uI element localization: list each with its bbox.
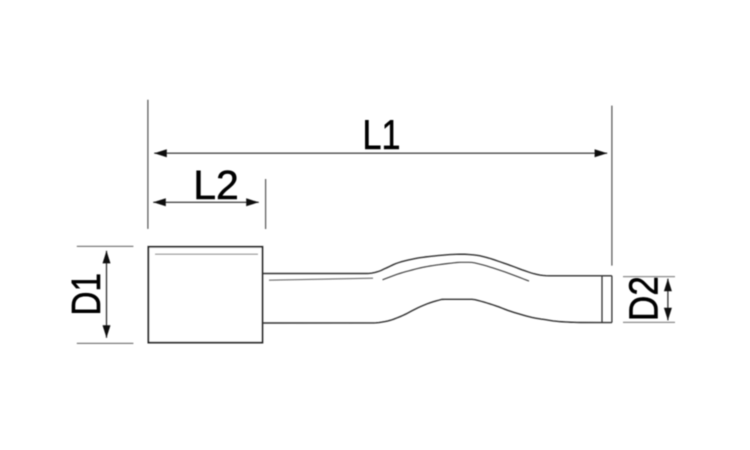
shaft inner bend line (383, 262, 530, 281)
arrowhead D2 top (664, 279, 672, 292)
shaft inner straight line (269, 278, 373, 280)
arrowhead D1 top (103, 251, 111, 264)
dimension line L1 (154, 152, 607, 154)
arrowhead D2 bottom (664, 308, 672, 321)
svg-text:D1: D1 (63, 273, 109, 316)
dimension line L2 (153, 201, 259, 203)
arrowhead L2 left (153, 198, 166, 206)
shaft bottom contour (263, 299, 612, 323)
arrowhead L1 left (154, 149, 167, 157)
extension line D2 bottom (623, 321, 675, 323)
svg-text:L1: L1 (363, 111, 401, 158)
extension line D1 bottom (77, 342, 134, 344)
extension line left (L1/L2 origin) (147, 100, 149, 229)
extension line right (L1 end) (611, 106, 613, 266)
arrowhead L2 right (246, 198, 259, 206)
body inner top line (155, 253, 258, 255)
dimension line D2 (667, 279, 669, 321)
part body rectangle (148, 247, 262, 343)
extension line L2 right (265, 179, 267, 229)
end seam line (601, 276, 603, 323)
extension line D2 top (623, 276, 675, 278)
dimension line D1 (106, 251, 108, 338)
svg-text:L2: L2 (193, 162, 239, 208)
extension line D1 top (77, 245, 134, 247)
arrowhead L1 right (595, 149, 608, 157)
shaft top contour (263, 254, 612, 276)
end cap line (611, 276, 613, 323)
svg-text:D2: D2 (621, 276, 667, 321)
arrowhead D1 bottom (103, 325, 111, 338)
